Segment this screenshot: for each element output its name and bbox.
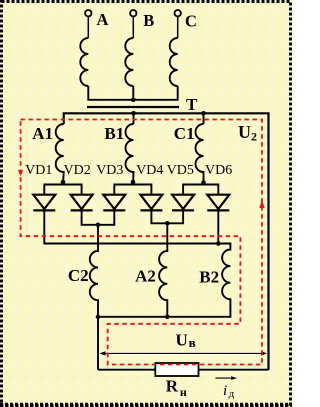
svg-text:VD4: VD4 bbox=[136, 163, 163, 178]
svg-text:VD6: VD6 bbox=[205, 163, 232, 178]
svg-text:B: B bbox=[143, 11, 154, 30]
svg-text:A: A bbox=[97, 10, 109, 29]
svg-text:н: н bbox=[180, 385, 187, 399]
svg-text:VD3: VD3 bbox=[96, 163, 123, 178]
svg-text:C2: C2 bbox=[68, 266, 89, 285]
svg-text:VD5: VD5 bbox=[167, 163, 194, 178]
svg-text:2: 2 bbox=[251, 130, 257, 144]
svg-text:B1: B1 bbox=[104, 124, 124, 143]
svg-text:U: U bbox=[176, 331, 188, 350]
svg-text:A2: A2 bbox=[135, 267, 156, 286]
svg-text:в: в bbox=[189, 335, 196, 350]
svg-text:д: д bbox=[229, 388, 235, 400]
svg-text:U: U bbox=[238, 122, 251, 142]
svg-text:i: i bbox=[223, 383, 227, 399]
svg-text:R: R bbox=[166, 376, 179, 395]
svg-text:A1: A1 bbox=[32, 124, 53, 143]
svg-text:VD2: VD2 bbox=[64, 163, 91, 178]
svg-text:VD1: VD1 bbox=[25, 163, 52, 178]
svg-text:T: T bbox=[186, 95, 198, 114]
svg-text:C: C bbox=[185, 12, 197, 31]
svg-text:B2: B2 bbox=[199, 268, 219, 287]
svg-text:C1: C1 bbox=[174, 124, 195, 143]
